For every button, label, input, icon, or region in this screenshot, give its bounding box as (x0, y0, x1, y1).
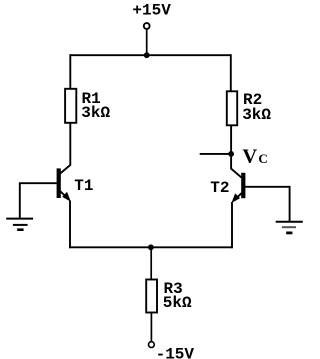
svg-text:C: C (258, 151, 267, 166)
svg-text:T2: T2 (210, 179, 229, 197)
junction bottom rail dot (148, 244, 154, 250)
svg-text:3kΩ: 3kΩ (242, 106, 271, 124)
wire top rail (70, 54, 232, 56)
wire R1 bottom to T1 collector (69, 123, 71, 166)
svg-text:3kΩ: 3kΩ (81, 104, 110, 122)
wire R2 bottom to T2 collector (230, 125, 232, 169)
wire base down to right ground (289, 186, 291, 222)
wire T1 emitter down (69, 201, 71, 249)
transistor T1 (57, 165, 71, 202)
ground right (276, 222, 303, 233)
node +15V terminal circle (144, 23, 150, 29)
wire right collector drop to R2 (230, 54, 232, 91)
svg-text:T1: T1 (74, 177, 93, 195)
wire bottom rail (69, 246, 233, 248)
resistor R3 (146, 280, 157, 313)
junction top rail dot (144, 52, 150, 58)
wire base down to left ground (19, 182, 21, 218)
wire +15V stem (146, 30, 148, 56)
resistor R2 (227, 91, 237, 125)
ground left (6, 219, 33, 230)
svg-text:-15V: -15V (156, 346, 195, 359)
node -15V terminal circle (149, 342, 155, 348)
svg-text:5kΩ: 5kΩ (163, 294, 192, 312)
resistor R1 (65, 89, 76, 123)
wire T2 emitter down (231, 202, 233, 248)
wire left collector drop to R1 (69, 54, 71, 89)
wire T1 base (20, 182, 57, 184)
wire rail to R3 (150, 247, 152, 279)
transistor T2 (231, 169, 245, 203)
junction Vc dot (228, 151, 234, 157)
wire Vc tap line (200, 153, 231, 155)
wire T2 base (245, 186, 289, 188)
svg-text:+15V: +15V (132, 1, 171, 19)
svg-text:V: V (242, 145, 257, 167)
wire R3 to -15V terminal (150, 312, 152, 341)
node Vc label (242, 145, 267, 167)
